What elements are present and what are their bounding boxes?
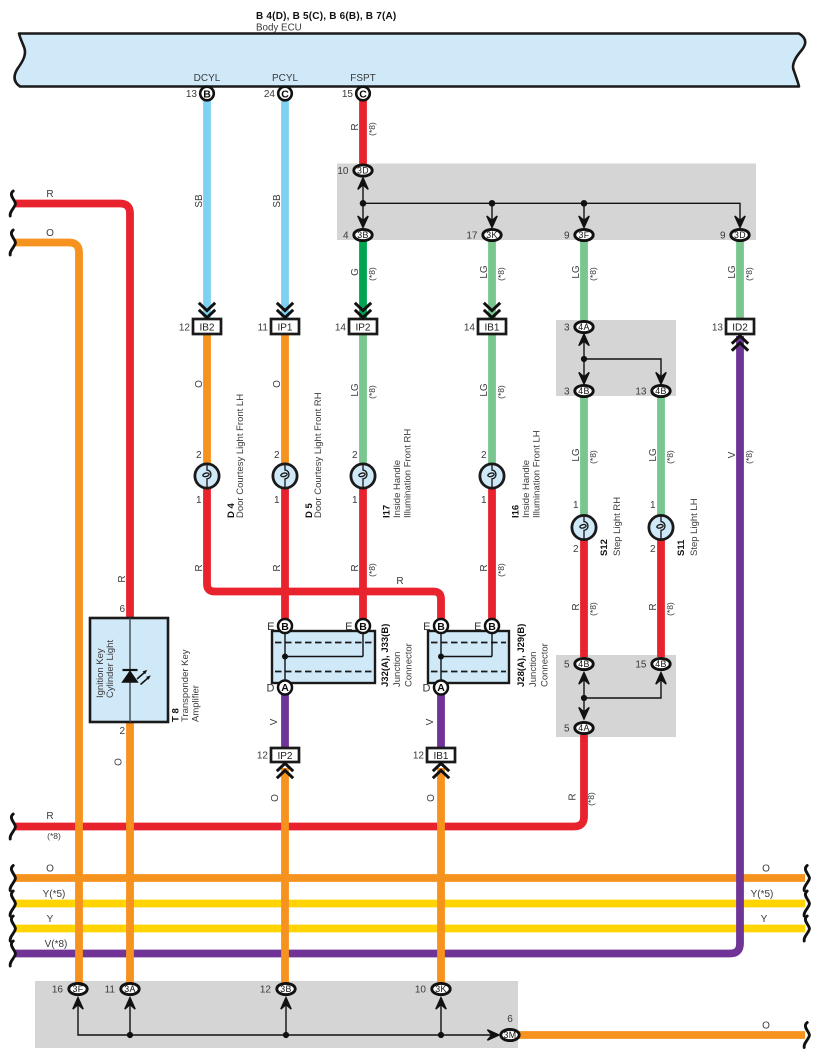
svg-text:J32(A), J33(B): J32(A), J33(B): [380, 624, 391, 687]
svg-text:O: O: [762, 1021, 770, 1032]
svg-text:10: 10: [415, 985, 427, 996]
svg-text:V: V: [269, 718, 280, 725]
svg-text:3F: 3F: [579, 230, 590, 240]
svg-text:(*8): (*8): [367, 122, 377, 136]
svg-text:S12: S12: [599, 539, 610, 556]
svg-text:IB1: IB1: [433, 751, 448, 762]
svg-text:4B: 4B: [655, 659, 666, 669]
svg-text:3: 3: [564, 323, 570, 334]
svg-text:12: 12: [260, 985, 272, 996]
svg-text:(*8): (*8): [588, 602, 598, 616]
svg-text:4A: 4A: [578, 723, 589, 733]
svg-text:B: B: [488, 621, 496, 633]
svg-text:O: O: [762, 864, 770, 875]
svg-text:13: 13: [635, 387, 647, 398]
svg-text:Connector: Connector: [404, 643, 415, 687]
svg-text:R: R: [194, 564, 205, 571]
svg-text:O: O: [270, 794, 281, 802]
svg-text:V: V: [425, 718, 436, 725]
svg-text:6: 6: [119, 604, 125, 615]
svg-text:LG: LG: [479, 383, 490, 397]
svg-text:1: 1: [650, 500, 656, 511]
svg-text:G: G: [350, 268, 361, 276]
svg-text:R: R: [571, 603, 582, 610]
svg-text:Inside Handle: Inside Handle: [521, 460, 532, 518]
svg-text:LG: LG: [350, 383, 361, 397]
svg-text:3A: 3A: [124, 984, 135, 994]
svg-text:3D: 3D: [357, 166, 369, 176]
svg-text:6: 6: [507, 1014, 513, 1025]
svg-text:13: 13: [186, 89, 198, 100]
svg-text:16: 16: [52, 985, 64, 996]
svg-text:Y: Y: [761, 914, 768, 925]
svg-text:5: 5: [564, 724, 570, 735]
svg-text:3F: 3F: [73, 984, 84, 994]
svg-text:Illumination Front RH: Illumination Front RH: [403, 429, 414, 518]
svg-text:4A: 4A: [578, 322, 589, 332]
svg-text:B: B: [203, 88, 211, 100]
svg-text:R: R: [479, 564, 490, 571]
svg-text:O: O: [272, 380, 283, 388]
svg-text:IB1: IB1: [484, 323, 499, 334]
svg-text:15: 15: [635, 660, 647, 671]
svg-text:R: R: [46, 811, 53, 822]
svg-text:3B: 3B: [280, 984, 291, 994]
svg-text:2: 2: [196, 450, 202, 461]
svg-text:PCYL: PCYL: [272, 73, 299, 84]
svg-text:Y: Y: [47, 914, 54, 925]
svg-text:O: O: [194, 380, 205, 388]
svg-text:C: C: [281, 88, 289, 100]
svg-text:(*8): (*8): [665, 602, 675, 616]
svg-text:D: D: [423, 683, 431, 695]
svg-text:I16: I16: [511, 505, 522, 518]
svg-text:SB: SB: [194, 194, 205, 208]
svg-text:E: E: [267, 621, 274, 633]
svg-text:R: R: [350, 564, 361, 571]
svg-text:R: R: [117, 575, 128, 582]
svg-text:A: A: [437, 682, 445, 694]
svg-text:3M: 3M: [504, 1030, 517, 1040]
svg-text:2: 2: [650, 544, 656, 555]
svg-text:(*8): (*8): [367, 267, 377, 281]
svg-text:(*8): (*8): [367, 563, 377, 577]
svg-text:Step Light RH: Step Light RH: [612, 497, 623, 556]
svg-text:V(*8): V(*8): [45, 939, 68, 950]
svg-text:IP2: IP2: [355, 323, 370, 334]
svg-text:R: R: [272, 564, 283, 571]
svg-text:3K: 3K: [486, 230, 497, 240]
svg-text:11: 11: [258, 323, 269, 334]
svg-text:3: 3: [564, 387, 570, 398]
svg-text:E: E: [474, 621, 481, 633]
svg-text:O: O: [426, 794, 437, 802]
svg-text:LG: LG: [571, 448, 582, 462]
svg-text:B: B: [437, 621, 445, 633]
svg-text:(*8): (*8): [496, 385, 506, 399]
svg-text:4: 4: [343, 231, 349, 242]
svg-text:R: R: [648, 603, 659, 610]
svg-text:A: A: [281, 682, 289, 694]
svg-text:2: 2: [119, 726, 125, 737]
svg-text:4B: 4B: [578, 386, 589, 396]
svg-text:12: 12: [179, 323, 191, 334]
svg-text:4B: 4B: [578, 659, 589, 669]
svg-text:Inside Handle: Inside Handle: [392, 460, 403, 518]
svg-text:ID2: ID2: [732, 323, 748, 334]
svg-text:10: 10: [337, 166, 349, 177]
svg-text:1: 1: [196, 495, 202, 506]
svg-text:LG: LG: [479, 265, 490, 279]
svg-text:I17: I17: [382, 505, 393, 518]
svg-text:V: V: [727, 451, 738, 458]
svg-text:R: R: [350, 123, 361, 130]
svg-text:O: O: [46, 228, 54, 239]
svg-text:DCYL: DCYL: [194, 73, 221, 84]
svg-text:Junction: Junction: [528, 652, 539, 687]
svg-text:Illumination Front LH: Illumination Front LH: [532, 430, 543, 518]
svg-text:Y(*5): Y(*5): [43, 889, 66, 900]
svg-text:(*8): (*8): [586, 792, 596, 806]
svg-text:(*8): (*8): [496, 267, 506, 281]
svg-text:R: R: [568, 793, 579, 800]
svg-text:Step Light LH: Step Light LH: [689, 498, 700, 556]
svg-text:LG: LG: [727, 265, 738, 279]
svg-text:IB2: IB2: [199, 323, 214, 334]
svg-text:(*8): (*8): [588, 267, 598, 281]
svg-text:B: B: [359, 621, 367, 633]
svg-text:LG: LG: [571, 265, 582, 279]
svg-text:(*8): (*8): [588, 450, 598, 464]
svg-text:IP2: IP2: [277, 751, 292, 762]
svg-text:1: 1: [481, 495, 487, 506]
svg-text:4B: 4B: [655, 386, 666, 396]
svg-text:3D: 3D: [734, 230, 746, 240]
svg-text:SB: SB: [272, 194, 283, 208]
svg-text:3K: 3K: [435, 984, 446, 994]
svg-text:Connector: Connector: [540, 643, 551, 687]
svg-text:24: 24: [264, 89, 276, 100]
svg-text:D: D: [267, 683, 275, 695]
svg-text:(*8): (*8): [496, 563, 506, 577]
svg-text:(*8): (*8): [744, 450, 754, 464]
svg-text:12: 12: [413, 751, 425, 762]
svg-text:IP1: IP1: [277, 323, 292, 334]
svg-text:1: 1: [274, 495, 280, 506]
svg-text:14: 14: [335, 323, 347, 334]
svg-text:11: 11: [105, 985, 116, 996]
svg-text:2: 2: [481, 450, 487, 461]
svg-text:S11: S11: [676, 539, 687, 556]
svg-text:B: B: [281, 621, 289, 633]
svg-text:R: R: [396, 576, 403, 587]
svg-text:Cylinder Light: Cylinder Light: [105, 640, 116, 698]
svg-text:3B: 3B: [357, 230, 368, 240]
svg-text:R: R: [46, 189, 53, 200]
svg-text:E: E: [423, 621, 430, 633]
svg-text:2: 2: [274, 450, 280, 461]
svg-text:O: O: [46, 864, 54, 875]
svg-text:(*8): (*8): [47, 831, 61, 841]
svg-text:1: 1: [352, 495, 358, 506]
svg-text:C: C: [359, 88, 367, 100]
svg-text:9: 9: [564, 231, 570, 242]
svg-text:FSPT: FSPT: [350, 73, 376, 84]
svg-text:Transponder Key: Transponder Key: [180, 649, 191, 722]
svg-text:Body ECU: Body ECU: [256, 23, 302, 34]
svg-text:O: O: [114, 758, 125, 766]
svg-text:15: 15: [342, 89, 354, 100]
svg-text:E: E: [345, 621, 352, 633]
svg-text:LG: LG: [648, 448, 659, 462]
svg-text:2: 2: [352, 450, 358, 461]
svg-text:(*8): (*8): [744, 267, 754, 281]
svg-text:12: 12: [257, 751, 269, 762]
svg-text:1: 1: [573, 500, 579, 511]
svg-text:Amplifier: Amplifier: [191, 685, 202, 722]
svg-text:Door Courtesy Light Front RH: Door Courtesy Light Front RH: [313, 392, 324, 518]
svg-text:Junction: Junction: [392, 652, 403, 687]
svg-text:17: 17: [466, 231, 478, 242]
svg-text:J28(A), J29(B): J28(A), J29(B): [516, 624, 527, 687]
svg-text:Y(*5): Y(*5): [751, 889, 774, 900]
svg-text:14: 14: [464, 323, 476, 334]
svg-text:13: 13: [712, 323, 724, 334]
svg-text:Door Courtesy Light Front LH: Door Courtesy Light Front LH: [235, 394, 246, 518]
svg-text:9: 9: [720, 231, 726, 242]
svg-text:B 4(D), B 5(C), B 6(B), B 7(A): B 4(D), B 5(C), B 6(B), B 7(A): [256, 11, 396, 22]
svg-text:(*8): (*8): [665, 450, 675, 464]
svg-text:(*8): (*8): [367, 385, 377, 399]
svg-text:2: 2: [573, 544, 579, 555]
svg-text:5: 5: [564, 660, 570, 671]
